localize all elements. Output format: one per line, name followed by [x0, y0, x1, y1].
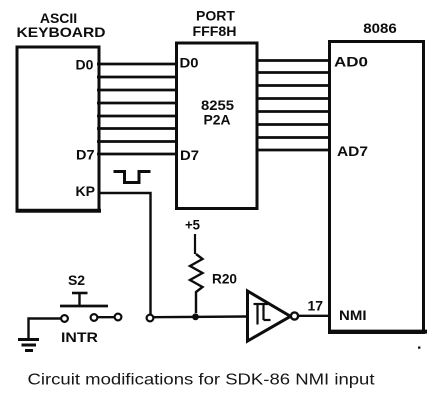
- contact circle 2: [91, 314, 98, 321]
- hysteresis symbol: [254, 304, 271, 325]
- svg-text:P2A: P2A: [204, 112, 231, 128]
- plunger cap: [72, 292, 88, 295]
- svg-text:8086: 8086: [363, 20, 397, 36]
- svg-text:R20: R20: [212, 271, 237, 287]
- negative pulse symbol at KP: [114, 172, 151, 183]
- data bus 8255 to 8086 (8 wires): [256, 61, 332, 151]
- data bus keyboard to 8255 (8 wires): [97, 64, 178, 154]
- contact circle 1: [61, 315, 68, 322]
- plunger stem: [78, 293, 80, 305]
- wire bus-R2: [256, 84, 332, 87]
- svg-text:D7: D7: [76, 147, 95, 163]
- wire bus-R6: [256, 136, 332, 139]
- actuator bar: [60, 305, 108, 308]
- svg-text:D7: D7: [180, 147, 199, 163]
- svg-text:AD7: AD7: [337, 143, 368, 159]
- wire bus-L7: [97, 153, 178, 156]
- pushbutton switch S2: [60, 272, 153, 345]
- wire bus-L3: [97, 102, 178, 105]
- wire bus-L0: [97, 63, 178, 66]
- svg-text:INTR: INTR: [61, 329, 98, 345]
- svg-text:KP: KP: [76, 183, 95, 199]
- svg-text:Circuit modifications for SDK-: Circuit modifications for SDK-86 NMI inp…: [28, 372, 376, 389]
- 8086 box thick bottom edge: [328, 330, 427, 334]
- ground symbol: [18, 319, 61, 351]
- svg-text:NMI: NMI: [339, 307, 367, 323]
- svg-text:17: 17: [308, 298, 324, 314]
- wire bus-L2: [97, 89, 178, 92]
- wire bus-L4: [97, 115, 178, 118]
- contact circle 3: [115, 314, 122, 321]
- wire KP to switch node (right then down): [99, 193, 151, 315]
- junction dot at resistor/wire: [192, 313, 199, 320]
- ground bar 1: [18, 338, 39, 341]
- svg-text:S2: S2: [68, 272, 85, 288]
- wire +5 to resistor: [194, 234, 196, 254]
- 8086 CPU box U-8086: [330, 42, 424, 333]
- resistor R20 zigzag: [190, 254, 203, 313]
- inverter (Schmitt trigger) U-INV: [248, 291, 299, 341]
- stray scan speck: [418, 347, 420, 349]
- wire bus-L1: [97, 76, 178, 79]
- keyboard box thick bottom edge: [16, 209, 102, 213]
- svg-text:FFF8H: FFF8H: [193, 23, 237, 39]
- wire bus-R3: [256, 97, 332, 100]
- ground bar 2: [22, 344, 37, 347]
- wire bus-R4: [256, 110, 332, 113]
- contact circle 4 (node to NMI net): [147, 315, 154, 322]
- ASCII KEYBOARD box U-KB: [17, 47, 99, 211]
- ground bar 3: [25, 349, 33, 352]
- wire bus-R5: [256, 123, 332, 126]
- wire switch node to inverter input: [154, 315, 249, 318]
- svg-text:KEYBOARD: KEYBOARD: [17, 24, 106, 40]
- svg-text:D0: D0: [180, 55, 199, 71]
- inverter triangle: [248, 291, 291, 341]
- wire between contacts 2-3: [98, 316, 115, 318]
- wire inverter output to NMI pin: [298, 315, 330, 317]
- wire bus-R1: [256, 71, 332, 74]
- wire bus-R7: [256, 149, 332, 152]
- svg-text:+5: +5: [185, 217, 200, 233]
- svg-text:AD0: AD0: [334, 54, 368, 70]
- output bubble: [291, 312, 298, 319]
- wire bus-L6: [97, 140, 178, 143]
- wire bus-R0: [256, 59, 332, 62]
- wire bus-L5: [97, 127, 178, 130]
- svg-text:PORT: PORT: [196, 8, 235, 24]
- ground lead: [29, 319, 62, 339]
- svg-text:D0: D0: [76, 57, 94, 73]
- 8255 port box U-8255: [177, 43, 258, 209]
